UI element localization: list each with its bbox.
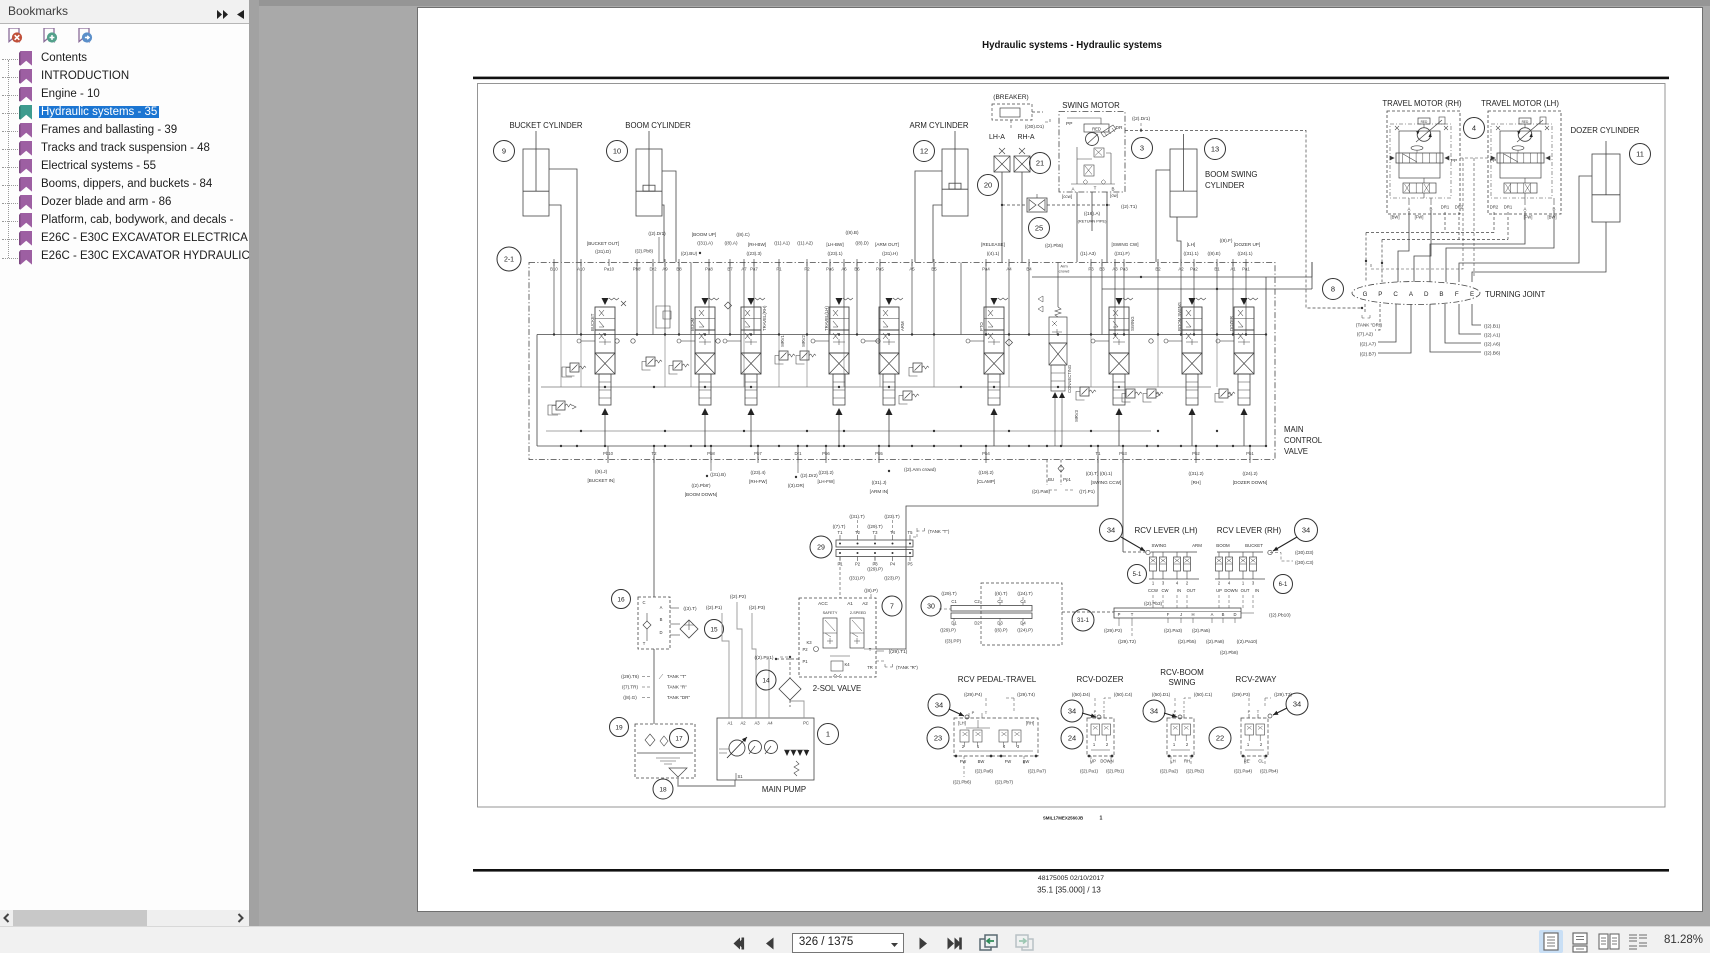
svg-text:PP: PP	[1451, 158, 1457, 164]
svg-text:[LH]: [LH]	[958, 721, 966, 726]
svg-text:BOOM CYLINDER: BOOM CYLINDER	[625, 121, 691, 130]
swing drain dashed wire	[1125, 131, 1362, 309]
svg-text:((3).T): ((3).T)	[683, 606, 697, 612]
svg-text:48175005 02/10/2017: 48175005 02/10/2017	[1038, 875, 1104, 882]
svg-text:BUCKET: BUCKET	[590, 313, 595, 331]
svg-text:((7).TR): ((7).TR)	[622, 685, 639, 690]
wire dozer F	[1459, 176, 1592, 282]
svg-text:T3: T3	[873, 530, 879, 535]
svg-text:((2).BU): ((2).BU)	[681, 251, 698, 256]
svg-text:OUT: OUT	[1241, 588, 1250, 593]
balloon 11	[1630, 144, 1651, 165]
balloon 9	[494, 141, 515, 162]
svg-text:((2).A7): ((2).A7)	[1360, 342, 1377, 348]
balloon 3	[1132, 138, 1153, 159]
svg-text:24: 24	[1068, 734, 1076, 743]
svg-text:BOOM: BOOM	[690, 317, 695, 331]
svg-text:6-1: 6-1	[1279, 582, 1288, 588]
pedal arrow	[949, 709, 964, 716]
svg-text:((24).2): ((24).2)	[1242, 471, 1258, 476]
svg-text:RH-A: RH-A	[1017, 134, 1034, 141]
svg-text:CCW: CCW	[1148, 588, 1158, 593]
svg-text:((31).F): ((31).F)	[1114, 251, 1130, 256]
svg-text:((23).P): ((23).P)	[884, 576, 900, 581]
svg-text:TURNING JOINT: TURNING JOINT	[1485, 290, 1545, 299]
svg-text:T: T	[643, 641, 646, 646]
svg-text:[CLAMP]: [CLAMP]	[977, 479, 995, 484]
svg-text:BU: BU	[1048, 477, 1054, 482]
svg-text:SWING MOTOR: SWING MOTOR	[1062, 101, 1120, 110]
swing motor	[1059, 112, 1125, 193]
svg-text:BUCKET: BUCKET	[1245, 543, 1263, 548]
svg-text:((1).A1): ((1).A1)	[774, 241, 790, 246]
balloon 1	[818, 724, 839, 745]
svg-text:P1: P1	[837, 562, 843, 567]
svg-text:((1).A2): ((1).A2)	[797, 241, 813, 246]
svg-text:34: 34	[1068, 707, 1076, 716]
svg-text:[BUCKET IN]: [BUCKET IN]	[588, 478, 615, 483]
svg-text:((8).G): ((8).G)	[623, 695, 637, 700]
svg-text:1: 1	[1247, 742, 1250, 747]
svg-text:P: P	[1248, 709, 1251, 714]
svg-text:((2).Pb8): ((2).Pb8)	[635, 249, 654, 254]
svg-text:CONTROL: CONTROL	[1284, 436, 1323, 445]
wire boom A	[662, 171, 676, 262]
svg-text:D: D	[1424, 291, 1429, 298]
svg-text:P: P	[1094, 709, 1097, 714]
svg-text:((2).Dr2): ((2).Dr2)	[800, 473, 818, 478]
svg-text:(RETURN PIPE): (RETURN PIPE)	[1078, 219, 1107, 224]
svg-text:34: 34	[1107, 526, 1115, 535]
RCV dozer block	[1087, 718, 1114, 756]
svg-text:Hydraulic systems - Hydraulic: Hydraulic systems - Hydraulic systems	[982, 40, 1162, 51]
svg-text:CONNECTING: CONNECTING	[1067, 365, 1072, 393]
balloon 24	[1061, 727, 1083, 749]
svg-text:34: 34	[935, 701, 943, 710]
travel drain dashed wires	[1444, 212, 1446, 233]
svg-text:((23).T): ((23).T)	[884, 514, 900, 519]
svg-text:H: H	[1191, 612, 1194, 617]
swing motor port wires	[1076, 192, 1078, 262]
svg-text:((31).A): ((31).A)	[697, 241, 713, 246]
valve port drop wires	[553, 263, 555, 335]
svg-text:DR1: DR1	[1441, 205, 1450, 210]
valve spool SWING	[1091, 298, 1135, 446]
svg-text:PP: PP	[1490, 158, 1496, 164]
svg-text:VALVE: VALVE	[1284, 447, 1308, 456]
balloon 34 2way	[1286, 693, 1308, 715]
balloon 4	[1464, 118, 1485, 139]
svg-text:((24).T): ((24).T)	[1017, 591, 1033, 596]
svg-text:RED: RED	[1522, 120, 1529, 124]
schematic border frame	[478, 84, 1666, 808]
svg-text:P2: P2	[855, 562, 861, 567]
svg-text:[BW]: [BW]	[1390, 215, 1399, 220]
svg-text:((3).PP): ((3).PP)	[945, 639, 962, 644]
svg-text:[BUCKET OUT]: [BUCKET OUT]	[587, 241, 619, 246]
balloon 7	[882, 596, 902, 616]
pilot supply dashed to 2-sol	[768, 658, 770, 660]
valve spool BUCKET	[577, 298, 619, 446]
balloon 23	[927, 727, 949, 749]
valve spool DOZER	[1216, 298, 1258, 446]
T2 line to filter	[653, 460, 655, 598]
svg-text:12: 12	[920, 147, 928, 156]
svg-text:D: D	[1233, 612, 1236, 617]
svg-text:DOZER: DOZER	[1229, 316, 1234, 331]
svg-text:T: T	[1103, 709, 1106, 714]
svg-text:K3: K3	[806, 640, 812, 645]
wire bucket B	[549, 205, 561, 262]
svg-text:C4: C4	[1020, 599, 1026, 604]
svg-text:((7).A2): ((7).A2)	[1357, 332, 1374, 338]
svg-text:T2: T2	[855, 530, 861, 535]
svg-text:T: T	[985, 710, 988, 715]
svg-text:11: 11	[1636, 150, 1644, 159]
pilot filter diamond	[779, 678, 801, 700]
svg-text:((6).P): ((6).P)	[994, 628, 1007, 633]
valve spool PTO	[966, 298, 1008, 446]
pilot manifold 29	[836, 530, 913, 567]
svg-text:((29).P): ((29).P)	[867, 567, 883, 572]
svg-text:21: 21	[1036, 159, 1044, 168]
balloon 34 dozer	[1061, 700, 1083, 722]
svg-text:3: 3	[1140, 144, 1144, 153]
svg-text:T: T	[869, 647, 872, 652]
svg-text:((2).A6): ((2).A6)	[1484, 342, 1501, 348]
valve spool TRAVEL LH	[811, 298, 853, 446]
svg-text:J: J	[1180, 612, 1182, 617]
svg-text:34: 34	[1302, 526, 1310, 535]
svg-text:16: 16	[617, 596, 625, 603]
svg-text:CW: CW	[1162, 588, 1169, 593]
svg-text:ARM: ARM	[1192, 543, 1202, 548]
svg-text:2: 2	[1260, 742, 1263, 747]
pilot manifold 31-1	[1114, 608, 1241, 623]
svg-text:B: B	[1553, 207, 1556, 212]
svg-text:DR2: DR2	[1490, 205, 1499, 210]
svg-text:D1: D1	[951, 621, 957, 626]
svg-text:[SWING CCW]: [SWING CCW]	[1091, 480, 1121, 485]
svg-text:((31).1): ((31).1)	[1183, 251, 1199, 256]
svg-text:ARM CYLINDER: ARM CYLINDER	[910, 121, 969, 130]
svg-text:PP: PP	[1066, 121, 1072, 127]
balloon 2-1	[497, 247, 521, 271]
balloon 6-1	[1274, 575, 1293, 594]
svg-text:TRAVEL MOTOR (RH): TRAVEL MOTOR (RH)	[1382, 99, 1462, 108]
svg-text:TANK "T": TANK "T"	[667, 674, 687, 679]
svg-text:((31).H): ((31).H)	[882, 251, 898, 256]
svg-text:17: 17	[675, 735, 683, 742]
svg-text:7: 7	[890, 604, 894, 611]
lever LH arrow	[1121, 537, 1145, 551]
svg-text:Pa10: Pa10	[604, 267, 615, 272]
balloon 31-1	[1072, 609, 1094, 631]
svg-text:((2).Pb1): ((2).Pb1)	[1106, 769, 1125, 774]
RCV 2way block	[1241, 718, 1268, 756]
svg-text:((8).A): ((8).A)	[724, 241, 737, 246]
RCV lever LH cluster	[1151, 551, 1197, 553]
svg-text:[RH-FW]: [RH-FW]	[749, 479, 767, 484]
svg-text:A: A	[660, 605, 663, 610]
suction line to pump	[678, 777, 735, 786]
svg-text:4: 4	[1176, 581, 1179, 586]
svg-text:((31).D): ((31).D)	[595, 249, 611, 254]
svg-text:((31).J): ((31).J)	[872, 480, 887, 485]
svg-text:[LH-BW]: [LH-BW]	[826, 242, 843, 247]
svg-text:PC: PC	[803, 721, 809, 726]
valve spool BOOM	[677, 298, 719, 446]
wire boom B	[662, 205, 664, 262]
svg-text:C2: C2	[974, 599, 980, 604]
svg-text:ARM: ARM	[900, 321, 905, 331]
svg-text:[RH-BW]: [RH-BW]	[748, 242, 766, 247]
svg-text:((31).B): ((31).B)	[710, 472, 726, 477]
svg-text:((29).P4): ((29).P4)	[964, 692, 983, 697]
balloon 15	[705, 620, 724, 639]
svg-text:((2).Pa1): ((2).Pa1)	[1080, 769, 1099, 774]
balloon 18	[653, 779, 673, 799]
turning joint	[1352, 282, 1480, 305]
svg-text:A1: A1	[727, 721, 733, 726]
svg-text:A: A	[1409, 291, 1414, 298]
svg-text:[cw]: [cw]	[1110, 193, 1118, 198]
svg-text:T: T	[1257, 709, 1260, 714]
svg-text:((2).Pb7): ((2).Pb7)	[995, 780, 1014, 785]
bottom rule	[473, 869, 1669, 872]
svg-text:((7).T): ((7).T)	[833, 524, 846, 529]
lever drop dashed wires	[1152, 595, 1154, 608]
svg-text:2-1: 2-1	[504, 257, 514, 264]
svg-text:LH-A: LH-A	[989, 134, 1005, 141]
svg-text:((2).Pa8): ((2).Pa8)	[1032, 489, 1051, 494]
svg-text:23: 23	[934, 734, 942, 743]
svg-text:P: P	[1174, 709, 1177, 714]
wire boom swing A	[1156, 170, 1170, 262]
svg-text:((29).P3): ((29).P3)	[1232, 692, 1251, 697]
svg-text:2: 2	[1186, 581, 1189, 586]
svg-text:3: 3	[1162, 581, 1165, 586]
svg-text:BW: BW	[1023, 759, 1030, 764]
svg-text:RED: RED	[1421, 120, 1428, 124]
svg-text:3: 3	[1017, 744, 1020, 749]
svg-text:DR: DR	[1116, 125, 1123, 131]
svg-text:[RH]: [RH]	[1191, 480, 1200, 485]
svg-text:1: 1	[1152, 581, 1155, 586]
svg-text:A3: A3	[754, 721, 760, 726]
svg-text:T4: T4	[890, 530, 896, 535]
svg-text:[DOZER UP]: [DOZER UP]	[1234, 242, 1260, 247]
svg-text:((50).D1): ((50).D1)	[1152, 692, 1171, 697]
lever RH arrow	[1273, 537, 1297, 551]
svg-text:((19).2): ((19).2)	[978, 470, 994, 475]
svg-text:DR2: DR2	[1455, 205, 1464, 210]
svg-text:2-SOL VALVE: 2-SOL VALVE	[813, 684, 861, 693]
balloon 34 lever LH	[1100, 519, 1123, 542]
svg-text:9: 9	[502, 147, 506, 156]
svg-text:35.1 [35.000] / 13: 35.1 [35.000] / 13	[1037, 886, 1101, 895]
svg-text:((23).3): ((23).3)	[746, 251, 762, 256]
svg-text:BOOM: BOOM	[1216, 543, 1230, 548]
svg-text:B: B	[1111, 187, 1114, 192]
svg-text:RCV LEVER (LH): RCV LEVER (LH)	[1134, 526, 1197, 535]
svg-text:((23).1): ((23).1)	[827, 251, 843, 256]
svg-text:B: B	[1430, 207, 1433, 212]
svg-text:2-SPEED: 2-SPEED	[850, 611, 867, 615]
svg-text:((2).Pa3): ((2).Pa3)	[1164, 628, 1183, 633]
svg-text:TRAVEL(RH): TRAVEL(RH)	[762, 305, 767, 331]
breaker	[992, 104, 1032, 120]
svg-text:T: T	[1183, 709, 1186, 714]
svg-text:MRV2: MRV2	[801, 335, 806, 347]
svg-text:((23).2): ((23).2)	[818, 470, 834, 475]
svg-text:[DOZER DOWN]: [DOZER DOWN]	[1233, 480, 1267, 485]
svg-text:[BOOM DOWN]: [BOOM DOWN]	[685, 492, 717, 497]
svg-text:((2).Pb8): ((2).Pb8)	[1220, 650, 1239, 655]
svg-text:((3).DR): ((3).DR)	[788, 483, 805, 488]
svg-text:A1: A1	[847, 601, 853, 606]
svg-text:[SWING CW]: [SWING CW]	[1111, 242, 1138, 247]
svg-text:((2).B7): ((2).B7)	[1360, 352, 1377, 358]
svg-text:((31).P): ((31).P)	[849, 576, 865, 581]
svg-text:((29).T): ((29).T)	[941, 591, 957, 596]
valve top ports	[553, 259, 555, 266]
svg-text:RE': RE'	[1244, 759, 1251, 764]
balloon 8	[1323, 279, 1344, 300]
svg-text:(TANK "T"): (TANK "T")	[928, 529, 950, 534]
svg-text:19: 19	[615, 724, 623, 731]
svg-text:P: P	[972, 710, 975, 715]
balloon 25	[1029, 218, 1050, 239]
svg-text:((2).P3): ((2).P3)	[749, 605, 766, 611]
svg-text:SAFETY: SAFETY	[823, 611, 838, 615]
svg-text:G: G	[1363, 291, 1368, 298]
svg-text:((2).Pp1): ((2).Pp1)	[755, 655, 774, 661]
svg-text:((31).T): ((31).T)	[849, 514, 865, 519]
svg-text:((2).B1): ((2).B1)	[1484, 324, 1501, 330]
arm cylinder	[942, 149, 968, 216]
svg-text:((8).F): ((8).F)	[1220, 238, 1233, 243]
svg-text:T1: T1	[838, 530, 844, 535]
svg-text:((29).T1): ((29).T1)	[889, 649, 908, 655]
svg-text:C: C	[642, 600, 645, 605]
svg-text:2: 2	[1218, 581, 1221, 586]
svg-text:4: 4	[1228, 581, 1231, 586]
svg-text:((8).E): ((8).E)	[1207, 251, 1220, 256]
svg-text:30: 30	[927, 604, 935, 611]
svg-text:((2).P1): ((2).P1)	[706, 605, 723, 611]
svg-text:((29).P2): ((29).P2)	[1104, 628, 1123, 633]
balloon 30	[921, 596, 941, 616]
balloon 21	[1030, 153, 1051, 174]
svg-text:T5: T5	[908, 530, 914, 535]
balloon 16	[612, 590, 631, 609]
svg-text:SWING: SWING	[1130, 316, 1135, 331]
valve spool BOOM SWING	[1164, 298, 1206, 446]
svg-text:((23).4): ((23).4)	[750, 470, 766, 475]
svg-text:((8).D): ((8).D)	[855, 241, 869, 246]
svg-text:((2).Pb5): ((2).Pb5)	[1178, 639, 1197, 644]
main pump	[717, 718, 814, 780]
svg-text:4: 4	[1003, 744, 1006, 749]
balloon 22	[1209, 727, 1231, 749]
svg-text:((2).Pb4): ((2).Pb4)	[1260, 769, 1279, 774]
svg-text:crowd: crowd	[1059, 269, 1070, 274]
valve LH-A	[999, 148, 1005, 154]
valve spool TRAVEL RH	[723, 298, 767, 446]
svg-text:25: 25	[1035, 224, 1043, 233]
svg-text:E: E	[1470, 291, 1474, 298]
svg-text:[FW]: [FW]	[1415, 215, 1424, 220]
svg-text:CYLINDER: CYLINDER	[1205, 181, 1245, 190]
svg-text:FW: FW	[960, 759, 967, 764]
svg-text:((29).T2): ((29).T2)	[1118, 639, 1136, 644]
svg-text:1: 1	[1093, 742, 1096, 747]
svg-text:((29).T4): ((29).T4)	[1017, 692, 1035, 697]
svg-text:((1).A3): ((1).A3)	[1080, 251, 1096, 256]
valve spool ARM	[861, 298, 905, 446]
svg-text:((50).C4): ((50).C4)	[1114, 692, 1133, 697]
svg-text:((29).T): ((29).T)	[867, 524, 883, 529]
svg-text:[RELEASE]: [RELEASE]	[981, 242, 1005, 247]
balloon 10	[607, 141, 628, 162]
svg-text:3: 3	[1252, 581, 1255, 586]
svg-text:FW: FW	[1005, 759, 1012, 764]
valve RH-A	[1019, 148, 1025, 154]
svg-text:C: C	[1393, 291, 1398, 298]
svg-text:5-1: 5-1	[1133, 572, 1142, 578]
svg-text:RCV-BOOM: RCV-BOOM	[1160, 668, 1204, 677]
svg-text:A2: A2	[862, 601, 868, 606]
svg-text:1: 1	[977, 744, 980, 749]
balloon 19	[610, 718, 629, 737]
svg-text:((50).D4): ((50).D4)	[1072, 692, 1091, 697]
filter bypass diamond	[680, 620, 698, 638]
travel motor (LH)	[1488, 111, 1561, 214]
travel motor (RH)	[1387, 111, 1460, 214]
svg-text:[RH]: [RH]	[1026, 721, 1034, 726]
svg-text:F: F	[1167, 612, 1170, 617]
travel wires to turning joint	[1398, 211, 1409, 282]
wire bucket A	[549, 169, 577, 262]
svg-text:31-1: 31-1	[1077, 618, 1090, 624]
svg-text:A: A	[1071, 187, 1074, 192]
svg-text:MAIN PUMP: MAIN PUMP	[762, 785, 806, 794]
boom cylinder	[636, 149, 662, 216]
svg-text:DOZER CYLINDER: DOZER CYLINDER	[1571, 126, 1640, 135]
svg-text:[LH]: [LH]	[1187, 242, 1195, 247]
svg-text:OUT: OUT	[1187, 588, 1196, 593]
balloon 17	[670, 729, 689, 748]
balloon 29	[810, 536, 832, 558]
relief valve modules	[570, 363, 579, 372]
svg-text:IN: IN	[1255, 588, 1259, 593]
svg-text:RCV-DOZER: RCV-DOZER	[1076, 675, 1123, 684]
svg-text:(TANK "R"): (TANK "R")	[896, 665, 918, 670]
svg-text:UP: UP	[1216, 588, 1222, 593]
svg-text:((8).P): ((8).P)	[864, 588, 878, 594]
svg-text:((2).Pa6): ((2).Pa6)	[975, 769, 994, 774]
svg-text:((2).Pb8'): ((2).Pb8')	[691, 483, 710, 488]
svg-text:D3: D3	[997, 621, 1003, 626]
dozer cylinder	[1592, 154, 1620, 222]
valve internal bus lines	[537, 334, 1266, 336]
valve bottom ports	[607, 457, 609, 464]
svg-text:((2).B6): ((2).B6)	[1484, 351, 1501, 357]
svg-text:((2).Pa2): ((2).Pa2)	[1160, 769, 1179, 774]
svg-text:((4).1): ((4).1)	[987, 251, 1000, 256]
wire arm B	[933, 205, 942, 262]
